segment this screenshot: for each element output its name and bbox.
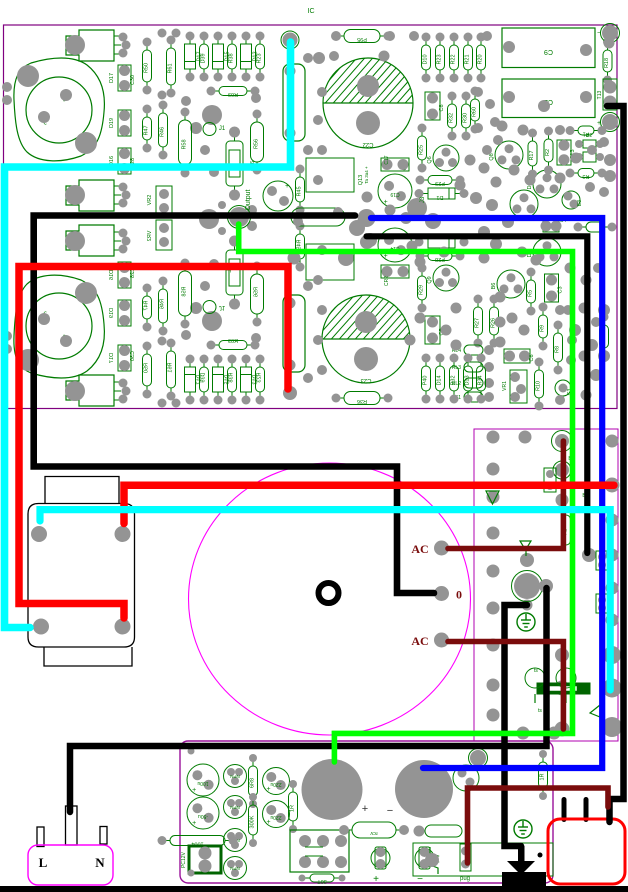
svg-text:R23: R23 [437,54,443,64]
svg-text:P40: P40 [423,376,429,386]
svg-text:R5: R5 [528,290,534,297]
svg-text:L: L [39,855,48,870]
svg-text:R45: R45 [297,239,303,249]
svg-text:R29: R29 [419,285,425,295]
svg-text:+: + [384,199,388,206]
svg-text:VR2: VR2 [147,195,153,206]
svg-text:R8: R8 [555,346,561,353]
svg-text:R2: R2 [545,149,551,156]
svg-text:R61: R61 [168,362,174,372]
svg-text:R46: R46 [160,127,166,137]
svg-text:220u: 220u [270,814,281,820]
svg-text:D17: D17 [109,73,115,83]
svg-text:J3: J3 [420,196,426,203]
svg-text:R46: R46 [160,299,166,309]
svg-text:D19: D19 [109,118,115,128]
svg-text:D1: D1 [436,194,443,200]
svg-text:C3: C3 [558,286,564,293]
svg-text:C22: C22 [362,141,374,147]
svg-text:R32: R32 [451,375,457,385]
svg-text:NPN: NPN [230,774,240,779]
svg-text:300K: 300K [250,815,256,828]
svg-text:N: N [95,855,105,870]
svg-text:R58: R58 [182,139,188,149]
svg-text:ts: ts [534,668,538,674]
svg-text:P29: P29 [435,180,445,186]
svg-text:R23: R23 [257,53,263,63]
svg-text:R60: R60 [472,107,478,117]
svg-text:P95: P95 [357,36,367,42]
svg-text:R56: R56 [254,139,260,149]
svg-text:R18: R18 [604,58,610,68]
svg-text:NPN: NPN [230,866,240,871]
svg-text:-50u: -50u [198,813,208,819]
svg-text:+: + [267,786,271,793]
svg-text:R38: R38 [229,372,235,382]
svg-text:R10: R10 [536,381,542,391]
svg-text:6R8: 6R8 [250,778,256,788]
svg-text:R9: R9 [540,325,546,332]
svg-text:R36: R36 [357,398,367,404]
svg-text:R38: R38 [229,53,235,63]
svg-text:R56: R56 [254,287,260,297]
svg-text:ts: ts [538,708,542,714]
svg-text:VR1: VR1 [502,381,508,391]
svg-text:+: + [192,820,196,827]
svg-text:30T: 30T [317,878,327,884]
svg-text:+: + [192,787,196,794]
svg-text:R45: R45 [297,186,303,196]
svg-text:R22: R22 [451,54,457,64]
svg-text:Q9: Q9 [427,276,433,283]
svg-text:pug: pug [460,876,470,882]
svg-text:−: − [597,30,601,37]
svg-text:E3: E3 [577,200,583,206]
svg-text:J1: J1 [219,126,226,132]
svg-text:D39: D39 [201,372,207,382]
svg-text:Q6: Q6 [427,156,433,163]
svg-text:AC: AC [411,542,428,556]
svg-text:D16: D16 [109,270,115,280]
svg-text:C9: C9 [544,48,553,55]
svg-text:T13: T13 [597,90,603,99]
svg-text:R47: R47 [144,125,150,135]
svg-text:NPN: NPN [230,805,240,810]
svg-text:C17: C17 [384,155,390,164]
svg-text:1R: 1R [290,805,296,812]
svg-text:R50: R50 [144,363,150,373]
svg-text:AC: AC [411,634,428,648]
svg-text:R17: R17 [529,150,535,160]
svg-text:R30: R30 [463,113,469,123]
svg-text:R61: R61 [168,63,174,73]
svg-text:D10: D10 [423,54,429,64]
svg-text:D39: D39 [201,53,207,63]
svg-text:+: + [362,803,368,815]
svg-text:C30: C30 [130,351,136,361]
svg-text:R25: R25 [419,145,425,155]
svg-text:R27: R27 [475,318,481,328]
svg-text:R32: R32 [449,113,455,123]
svg-text:rcv: rcv [370,830,378,836]
svg-text:−: − [387,805,393,817]
svg-text:R47: R47 [144,300,150,310]
svg-text:R20: R20 [478,54,484,64]
svg-text:C8: C8 [439,104,445,111]
svg-text:IC: IC [308,8,315,15]
svg-text:Ta 3a4 +: Ta 3a4 + [364,166,369,184]
svg-text:Q8: Q8 [489,153,495,160]
svg-text:+: + [285,183,289,190]
svg-text:CR2: CR2 [384,276,390,286]
svg-text:B6: B6 [491,283,497,290]
svg-text:R69: R69 [228,91,238,97]
svg-text:+: + [597,120,601,127]
svg-text:R3: R3 [582,173,589,179]
svg-text:R50: R50 [144,63,150,73]
svg-text:C19: C19 [390,191,399,197]
svg-text:R34: R34 [478,375,484,385]
svg-text:J1: J1 [219,304,226,310]
svg-text:D13: D13 [465,375,471,385]
svg-text:1R: 1R [540,773,546,780]
svg-text:C30: C30 [130,75,136,85]
svg-text:D14: D14 [437,375,443,385]
svg-text:PC12V: PC12V [181,851,187,868]
svg-text:100u: 100u [197,780,208,786]
svg-text:+: + [373,874,379,885]
svg-text:D17: D17 [109,353,115,363]
svg-text:R21: R21 [465,54,471,64]
svg-text:D2: D2 [586,133,593,139]
svg-text:R23: R23 [257,372,263,382]
svg-text:C6: C6 [529,354,535,361]
svg-text:R69: R69 [228,339,238,345]
svg-text:R58: R58 [182,286,188,296]
svg-text:0: 0 [456,588,462,602]
svg-text:C23: C23 [360,377,372,383]
svg-text:D19: D19 [109,308,115,318]
svg-text:220u: 220u [270,781,281,787]
svg-text:+: + [267,819,271,826]
svg-text:VR2: VR2 [147,231,153,242]
